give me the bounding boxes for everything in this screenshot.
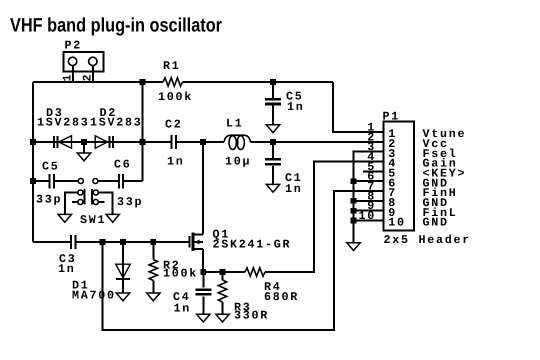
svg-text:P2: P2 [65, 39, 83, 53]
switch SW1 right throw contact A [93, 190, 98, 195]
junction source row / R3 [220, 269, 226, 275]
wire mid rail x=142.5 [142, 82, 144, 181]
svg-text:33p: 33p [36, 193, 62, 207]
wire C5 to SW1 pole [55, 180, 78, 182]
wire L1 to P1 pin 2 (Vcc) [251, 141, 384, 143]
P1 pin 6 wire [354, 180, 384, 182]
svg-text:GND: GND [423, 216, 449, 230]
wire varactor row left [33, 141, 143, 143]
wire gate row to FinH bottom loop [103, 191, 384, 330]
svg-text:33p: 33p [117, 195, 143, 209]
svg-text:100k: 100k [158, 90, 193, 104]
svg-text:1n: 1n [174, 301, 192, 315]
ground below P1 GND bus [347, 243, 360, 251]
varactor D3 [54, 136, 72, 148]
junction GND bus pin 10 [351, 218, 357, 224]
SW1 right throw stub [99, 201, 105, 203]
capacitor C3 [71, 235, 75, 249]
wire source row [203, 271, 245, 273]
varactor center ground stem [83, 142, 85, 153]
C1 lower lead [272, 166, 274, 185]
inductor L1 [224, 135, 251, 149]
C4 lower lead [202, 296, 204, 314]
svg-text:MA700: MA700 [72, 288, 116, 302]
ground below SW1 right [106, 214, 119, 222]
junction left rail / 33p row [30, 178, 36, 184]
switch SW1 left slider bar [84, 189, 86, 204]
junction GND bus pin 6 [351, 178, 357, 184]
svg-text:100k: 100k [163, 267, 198, 281]
capacitor C4 [195, 290, 211, 295]
svg-text:C5: C5 [42, 159, 60, 173]
svg-text:L1: L1 [226, 116, 244, 130]
switch SW1 left throw contact A [78, 190, 83, 195]
capacitor C5 (1n) [265, 99, 281, 104]
capacitor C1 [265, 159, 281, 164]
wire SW1 right throw to ground [99, 193, 113, 215]
switch SW1 right pole contact [93, 179, 98, 184]
wire top bus left (P2/rail to R1) [33, 81, 163, 83]
ground below varactor junction [77, 153, 90, 161]
ground below C5 [266, 125, 279, 133]
switch SW1 left throw contact B [78, 200, 83, 205]
P2 pin 1 lead [72, 66, 74, 82]
svg-text:1SV283: 1SV283 [90, 115, 142, 129]
capacitor C1 lead [272, 142, 274, 158]
R2 lower lead [152, 281, 154, 294]
capacitor C4 lead [202, 272, 204, 287]
wire SW1 pole to C6 [98, 180, 118, 182]
svg-text:10: 10 [388, 216, 406, 230]
P1 pin 10 wire [354, 220, 384, 222]
svg-text:2x5 Header: 2x5 Header [384, 233, 471, 247]
wire C3 to gate [76, 241, 188, 243]
diode D1 [116, 264, 130, 279]
junction top bus at x=142.5 [140, 79, 146, 85]
resistor R1 [163, 78, 183, 86]
P1 pin 9 wire [354, 210, 384, 212]
resistor R3 [218, 280, 226, 302]
svg-text:2: 2 [81, 73, 95, 82]
svg-text:VHF band plug-in oscillator: VHF band plug-in oscillator [10, 15, 222, 37]
svg-text:2SK241-GR: 2SK241-GR [213, 238, 292, 252]
resistor R2 lead [152, 242, 154, 260]
wire rail to C2 [143, 141, 171, 143]
switch SW1 left pole contact [78, 179, 83, 184]
capacitor C2 [171, 135, 175, 149]
junction left rail / varactor row [30, 139, 36, 145]
switch SW1 right throw contact B [93, 200, 98, 205]
ground below D1 [116, 293, 129, 301]
connector P1 box [383, 122, 414, 231]
resistor R3 lead [222, 272, 224, 280]
ground below SW1 left [58, 214, 71, 222]
junction gate row / R2 [151, 239, 157, 245]
C5 lower lead [272, 104, 274, 125]
P2 pin 2 lead [92, 66, 94, 82]
svg-text:C2: C2 [165, 118, 183, 132]
wire rail to C5 [33, 180, 48, 182]
junction GND bus pin 9 [351, 208, 357, 214]
wire SW1 left throw to ground [65, 193, 78, 215]
svg-text:1n: 1n [285, 182, 303, 196]
svg-text:SW1: SW1 [80, 213, 106, 227]
svg-text:1: 1 [61, 73, 75, 82]
ground below C1 [266, 184, 279, 192]
svg-text:C6: C6 [114, 158, 132, 172]
switch SW1 right slider bar [91, 189, 93, 204]
wire Q1 drain to tank [202, 142, 204, 235]
junction source / C4 [201, 269, 207, 275]
resistor R2 [149, 260, 157, 281]
junction GND bus pin 8 [351, 198, 357, 204]
junction rail / main row [140, 139, 146, 145]
wire Q1 source down [202, 249, 204, 272]
svg-text:1n: 1n [167, 154, 185, 168]
ground below R3 [216, 314, 229, 322]
capacitor C5 (1n) lead [272, 82, 274, 99]
P1 pin 5 stub (KEY) [363, 170, 383, 172]
junction gate row / FinH loop [100, 239, 106, 245]
connector P2 [63, 52, 103, 72]
P1 pin 3 wire and GND bus [354, 152, 384, 243]
svg-text:1n: 1n [287, 100, 305, 114]
wire rail to C3 [33, 241, 70, 243]
wire C6 to rail [124, 180, 143, 182]
wire left rail [32, 82, 34, 242]
ground below R2 [147, 293, 160, 301]
resistor R4 [245, 268, 265, 276]
P1 pin 8 wire [354, 200, 384, 202]
junction gate row / D1 [120, 239, 126, 245]
svg-text:R1: R1 [163, 59, 181, 73]
svg-text:330R: 330R [234, 309, 269, 323]
svg-text:10µ: 10µ [225, 154, 251, 168]
junction L1 / C1 / Vcc [270, 139, 276, 145]
R3 lower lead [222, 302, 224, 314]
junction varactor center [81, 139, 87, 145]
svg-text:680R: 680R [264, 290, 299, 304]
ground below C4 [197, 314, 210, 322]
svg-text:1SV283: 1SV283 [37, 115, 89, 129]
svg-text:10: 10 [359, 209, 377, 223]
svg-text:1n: 1n [58, 262, 76, 276]
wire Vtune route to P1 pin 1 [333, 82, 383, 132]
wire R4 to P1 pin 4 (Gain) [265, 162, 383, 273]
transistor Q1 [189, 233, 203, 251]
junction drain tap [200, 139, 206, 145]
SW1 left throw stub [72, 201, 78, 203]
diode D1 lead [122, 242, 124, 293]
junction top bus / C5 [270, 79, 276, 85]
capacitor C5 (33p) [50, 174, 54, 188]
wire C2 to L1 [177, 141, 224, 143]
varactor D2 [95, 136, 113, 148]
wire top bus right (R1 to C5/Vtune corner) [183, 81, 334, 83]
capacitor C6 (33p) [119, 174, 123, 188]
